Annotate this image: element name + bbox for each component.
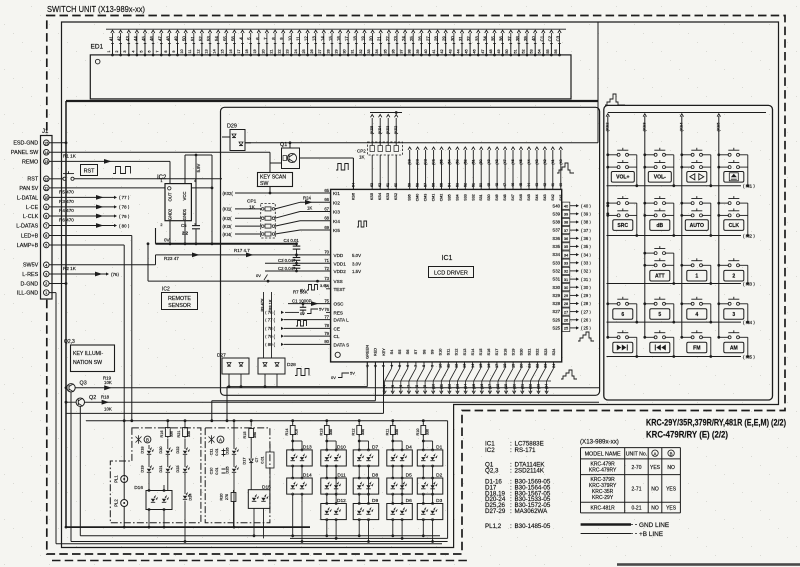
svg-text:33: 33 [564,260,568,265]
svg-text:35: 35 [564,244,568,249]
wire DATA pin 79 [284,335,331,337]
svg-text:D17: D17 [242,457,247,464]
LED block D9 [353,504,379,520]
svg-text:⟨ 77 (: ⟨ 77 ( [265,317,276,322]
svg-text:54: 54 [538,49,542,53]
svg-text:A: A [654,451,657,456]
svg-text:7: 7 [156,50,160,52]
svg-text:38: 38 [408,49,412,53]
svg-text:(15: (15 [472,384,476,389]
svg-text:36: 36 [391,49,395,53]
svg-text:S33: S33 [463,194,467,200]
svg-text:39: 39 [564,212,568,217]
svg-text:57: 57 [424,183,428,187]
svg-text:(K02(: (K02( [223,191,234,196]
svg-text:R20: R20 [220,494,224,501]
svg-text:10: 10 [438,364,442,368]
svg-text:(12: (12 [448,384,452,389]
svg-text:ATT: ATT [655,274,665,280]
svg-text:330: 330 [170,431,174,437]
svg-text:+B LINE: +B LINE [639,531,663,538]
LED block D4 [387,450,413,466]
LED block D7 [353,450,379,466]
svg-text:C3: C3 [556,35,561,41]
svg-text:S16: S16 [486,349,491,356]
IC1 pin 17 S17 [496,362,498,368]
key AM [719,336,729,338]
ED1 pin 44 [461,54,463,56]
IC1 inner circle [335,352,340,357]
node wrap 79 [114,214,117,217]
svg-text:23: 23 [544,364,548,368]
svg-text:3: 3 [732,312,735,318]
svg-text:330: 330 [329,429,333,435]
svg-text:S15: S15 [478,349,483,356]
svg-text:D28: D28 [287,362,296,368]
svg-text:(48: (48 [495,159,499,164]
wire S21 fanout [522,368,529,381]
svg-text:C10: C10 [210,468,214,475]
box label RST [81,165,98,176]
svg-text:D3: D3 [436,498,442,504]
LED block D3 [417,504,443,520]
svg-text:38: 38 [564,220,568,225]
svg-text:S46: S46 [519,194,523,200]
lamp PL1 [121,476,128,483]
key FM [682,336,692,338]
IC1 top pin 41 S42 [552,150,554,189]
svg-text:L-RES: L-RES [22,272,38,278]
IC1 top pin 58 CM0 [417,150,419,189]
ED1 pin 51 [518,54,520,56]
wire VDD1 pin71 [265,262,331,264]
wire column KS3 [644,116,646,337]
J1 pin 3 L-RES [44,271,50,277]
svg-text:18: 18 [352,36,357,41]
svg-text:29: 29 [335,49,339,53]
resistor R10 330 [422,421,424,424]
svg-text:37: 37 [507,36,512,41]
svg-text:SENSOR: SENSOR [168,303,191,309]
svg-text:(10: (10 [431,384,435,389]
IC U1 LCD driver body [331,189,562,362]
svg-text:10: 10 [287,36,292,41]
svg-text:⟨ 78 (: ⟨ 78 ( [265,326,276,331]
IC1 top pin 55 CM2 [441,150,443,189]
svg-text:KS6: KS6 [352,193,356,200]
svg-text:S21: S21 [527,349,532,356]
ED1 pin 18 [250,54,252,56]
IC1 top pin 44 S45 [528,150,530,189]
svg-text:66: 66 [324,197,329,202]
svg-text:13: 13 [204,49,208,53]
svg-text:61: 61 [386,183,390,187]
key CLK [719,202,729,204]
svg-text:11: 11 [447,364,451,368]
svg-text:35: 35 [491,36,496,41]
wire S9 fanout [425,368,432,381]
svg-text:40: 40 [559,183,563,187]
ED1 pin 11 [193,54,195,56]
svg-text:VOL-: VOL- [654,175,666,181]
svg-text:L-DATAL: L-DATAL [17,195,38,201]
svg-text:77: 77 [324,314,329,319]
ED1 pin 4 [136,54,138,56]
J1 pin 15 ESD-GND [44,140,50,146]
IC1 top pin 43 S44 [536,150,538,189]
svg-text:0V: 0V [164,238,171,243]
svg-text:D6: D6 [406,498,412,504]
svg-text:R4 470: R4 470 [59,208,74,213]
svg-text:(53: (53 [455,159,459,164]
svg-text:14: 14 [44,151,48,155]
svg-text:D1: D1 [436,444,442,450]
resistor CP1 element 3 [235,225,261,227]
IC1 pin 1 GREEN [366,362,368,368]
ED1 pin 24 [298,54,300,56]
svg-text:3: 3 [45,273,47,277]
svg-text:38: 38 [515,36,520,41]
svg-text:NATION SW: NATION SW [73,360,102,366]
svg-text:(54: (54 [447,159,451,164]
wire column R13 right hook [335,441,337,450]
J1 pin 10 L-DATAL [44,195,50,201]
svg-text:D2: D2 [436,473,442,479]
svg-text:D9: D9 [372,498,378,504]
svg-text:31: 31 [458,36,463,41]
svg-text:71: 71 [324,258,329,263]
wire D-GND pin2 [49,283,66,285]
svg-text:⟨ 79 (: ⟨ 79 ( [265,334,276,339]
sawtooth glyph near ED1 right [605,94,625,105]
wire S7 fanout [409,368,416,381]
wire S4 fanout [385,368,392,381]
svg-text:D4: D4 [406,444,412,450]
IC1 top pin 47 S48 [504,150,506,189]
svg-text:AUTO: AUTO [690,223,704,229]
J1 pin 14 PANEL SW [44,150,50,156]
legend GND LINE [581,523,631,525]
svg-text:S28: S28 [552,301,560,306]
svg-text:D-GND: D-GND [21,281,39,287]
svg-text:20: 20 [369,36,374,41]
svg-text:22: 22 [385,36,390,41]
svg-text:1: 1 [45,291,47,295]
svg-text:( 35 ⟩: ( 35 ⟩ [581,244,591,249]
resistor R5 470 [49,196,116,198]
J1 pin 9 L-CE [44,204,50,210]
IC1 pin 7 S7 [415,362,417,368]
wire K02 to KI1 pin65 [235,192,331,194]
wire S12 fanout [449,368,456,381]
resistor R2 1K [49,273,106,275]
svg-text:54: 54 [214,36,219,41]
svg-text:D23: D23 [175,465,180,472]
svg-text:12: 12 [44,177,48,181]
svg-text:43: 43 [535,183,539,187]
svg-text:CLK: CLK [729,223,740,229]
svg-text:D16: D16 [134,485,143,491]
transistor Q2 [76,398,84,406]
ED1 pin 2 [120,54,122,56]
svg-text:( 32 ⟩: ( 32 ⟩ [581,269,591,274]
svg-text:LAMP+B: LAMP+B [17,243,39,249]
svg-text:( 33 ⟩: ( 33 ⟩ [581,260,591,265]
svg-text:(KS2: (KS2 [394,126,398,134]
svg-text:37: 37 [400,49,404,53]
svg-text:70: 70 [324,250,329,255]
wire GND bottom bus (thick) [66,526,310,528]
svg-text:330: 330 [361,429,365,435]
svg-text:32: 32 [466,36,471,41]
LED block D2 [417,478,443,494]
svg-text:S17: S17 [494,349,499,356]
svg-text:RED: RED [373,348,378,356]
svg-text:S4: S4 [389,349,394,355]
svg-text:50: 50 [182,36,187,41]
ED1 pin 35 [388,54,390,56]
wire column R12 left down [358,520,360,536]
svg-text:SW5V: SW5V [23,263,39,269]
svg-text:(KI2(: (KI2( [223,216,233,221]
svg-text:S24: S24 [551,348,556,356]
svg-text:Q3: Q3 [80,381,87,387]
wire GND rail left vertical [65,101,67,527]
svg-text:NO: NO [651,506,659,512]
svg-text:49: 49 [487,183,491,187]
svg-text:(14: (14 [464,384,468,389]
svg-text:S31: S31 [479,194,483,200]
svg-text:0V: 0V [256,273,261,278]
svg-text:25: 25 [564,326,568,331]
svg-text:S36: S36 [408,194,412,200]
svg-text:1K: 1K [359,155,365,160]
wire column KS5 [718,116,720,337]
legend +B LINE [581,533,631,535]
svg-text:R3 470: R3 470 [59,199,74,204]
LED block D14 [287,478,313,494]
ED1 pin 14 [217,54,219,56]
svg-text:0-21: 0-21 [631,506,641,512]
waveform glyph KI4 [357,221,367,227]
sawtooth glyph right of fan [561,370,577,379]
svg-text:13: 13 [44,160,48,164]
svg-text:C5: C5 [181,223,187,228]
svg-text:D12: D12 [337,498,346,504]
svg-text:R18: R18 [101,394,110,399]
svg-text:PANEL SW: PANEL SW [11,150,39,156]
svg-text:PL1,2: PL1,2 [485,523,502,530]
ED1 pin 22 [282,54,284,56]
svg-text:KS2: KS2 [394,193,398,200]
svg-text:46: 46 [149,36,154,41]
ED1 pin 13 [209,54,211,56]
svg-text:30: 30 [343,49,347,53]
svg-text:34: 34 [482,36,487,41]
svg-text:S45: S45 [527,194,531,200]
wire row KI1 [607,185,742,187]
svg-text:( 40 ⟩: ( 40 ⟩ [581,203,591,208]
svg-text:(50: (50 [479,159,483,164]
svg-text:39: 39 [416,49,420,53]
svg-text:3.9V: 3.9V [320,283,328,288]
ED1 pin 55 [550,54,552,56]
svg-text:32: 32 [359,49,363,53]
ED1 pin 37 [404,54,406,56]
svg-text:(KI1(: (KI1( [223,207,233,212]
node wrap 77 [114,196,117,199]
resistor R19 10K [75,387,599,389]
svg-text:18: 18 [503,364,507,368]
svg-text:VDD: VDD [334,253,344,258]
svg-text:(KS4: (KS4 [378,126,382,134]
svg-text:510: 510 [295,429,299,435]
svg-text:1: 1 [160,179,162,183]
wire PAN 5V pin11 [49,187,212,189]
svg-text:45: 45 [519,183,523,187]
wire row KI4 [607,321,742,323]
svg-text:( 34 ⟩: ( 34 ⟩ [581,252,591,257]
LED block D11 [321,478,347,494]
wire S20 fanout [514,368,521,381]
svg-text:50: 50 [505,49,509,53]
wire S24 fanout [547,368,554,381]
svg-text:( 26 ⟩: ( 26 ⟩ [581,318,591,323]
svg-text:26: 26 [310,49,314,53]
svg-text:51: 51 [471,183,475,187]
svg-text:21: 21 [270,49,274,53]
svg-text:42: 42 [440,49,444,53]
ED1 pin 49 [502,54,504,56]
svg-text:10K: 10K [104,380,112,385]
IC1 pin 19 S19 [512,362,514,368]
svg-text:S25: S25 [552,326,560,331]
resistor R6 470 [49,225,116,227]
ED1 pin 50 [510,54,512,56]
IC1 pin 2 RED [374,362,376,368]
svg-text:10: 10 [44,196,48,200]
svg-text:⟨ 80 (: ⟨ 80 ( [265,342,276,347]
svg-text:(42: (42 [543,159,547,164]
ED1 pin 6 [152,54,154,56]
svg-text:KRC-481R: KRC-481R [591,506,616,512]
diode D28 [258,358,285,374]
svg-text:2.2: 2.2 [182,231,189,236]
IC1 section enclosure box [221,107,600,395]
svg-text:50: 50 [479,183,483,187]
svg-text:(17: (17 [488,384,492,389]
svg-text:4: 4 [695,312,698,318]
IC1 pin 3 KEY [383,362,385,368]
svg-text:11: 11 [188,50,192,54]
LED D22 [183,451,187,454]
svg-text:67: 67 [324,206,329,211]
waveform glyph near RST [113,167,131,174]
svg-text:17: 17 [495,364,499,368]
svg-text:D26: D26 [225,447,230,454]
op-amp IC2 remote sensor body [165,184,191,221]
svg-text:S8: S8 [421,350,426,355]
resistor R17 4.7 [246,253,254,258]
wire S23 fanout [539,368,546,381]
svg-text:53: 53 [530,49,534,53]
resistor CP1 element 4 [235,233,261,235]
svg-text:(23: (23 [537,384,541,389]
key REW [645,336,655,338]
svg-text:VDD2: VDD2 [334,269,347,274]
wire S14 fanout [466,368,473,381]
wire S22 fanout [530,368,537,381]
wire column R10 right hook [432,441,434,450]
wire column R10 right down [432,466,434,504]
svg-text:69: 69 [324,225,329,230]
svg-text:20: 20 [519,364,523,368]
wire column R14 left down [292,494,294,536]
svg-text:S35: S35 [552,244,560,249]
svg-text:40: 40 [424,49,428,53]
junction dots on KS2 column [606,204,609,207]
LED D18 [147,451,151,454]
svg-text:1K: 1K [249,205,256,211]
J1 pin 1 ILL-GND [44,290,50,296]
svg-text:16: 16 [336,36,341,41]
svg-text:4: 4 [45,263,47,267]
svg-text:(13: (13 [456,384,460,389]
ED1 pin 42 [445,54,447,56]
svg-text:(20: (20 [512,384,516,389]
svg-text:( 25 ⟩: ( 25 ⟩ [581,326,591,331]
svg-text:19: 19 [361,36,366,41]
svg-text:S35: S35 [447,194,451,200]
J1 pin 7 L-DATAS [44,223,50,229]
node wrap 76 [106,272,109,275]
svg-text:TEST: TEST [334,287,346,292]
svg-text:MA3062WA: MA3062WA [515,508,549,515]
svg-text:14: 14 [213,49,217,53]
IC1 pin 15 S15 [480,362,482,368]
svg-text:ILL-GND: ILL-GND [17,291,38,297]
key 1 [682,264,692,266]
ED1 pin 9 [177,54,179,56]
wire ESD horizontal [245,142,598,144]
svg-text:(C3: (C3 [416,159,420,165]
svg-text:12: 12 [304,36,309,41]
svg-text:S49: S49 [495,194,499,200]
svg-text:C2: C2 [547,35,552,41]
IC1 pin 10 S10 [439,362,441,368]
svg-text:KEY SCAN: KEY SCAN [260,175,286,181]
resistor R23 47 [49,264,155,266]
svg-text:9: 9 [172,50,176,52]
wire LED anode bus [86,420,448,422]
ED1 pin 12 [201,54,203,56]
svg-text:53: 53 [206,36,211,41]
wire ESD-GND pin15 [49,142,66,144]
svg-text:39: 39 [523,36,528,41]
svg-text:KS3: KS3 [386,193,390,200]
svg-text:62: 62 [378,183,382,187]
IC1 pin 22 S22 [536,362,538,368]
svg-text:15: 15 [479,364,483,368]
wire row KI2 [607,235,742,237]
resistor CP1 element 2 [235,217,261,219]
svg-text:CM0: CM0 [416,194,420,202]
wire S11 fanout [441,368,448,381]
svg-text:36: 36 [499,36,504,41]
IC1 pin 61 KS3 [387,155,389,189]
svg-text:(44: (44 [527,159,531,164]
svg-text:6: 6 [406,365,410,367]
